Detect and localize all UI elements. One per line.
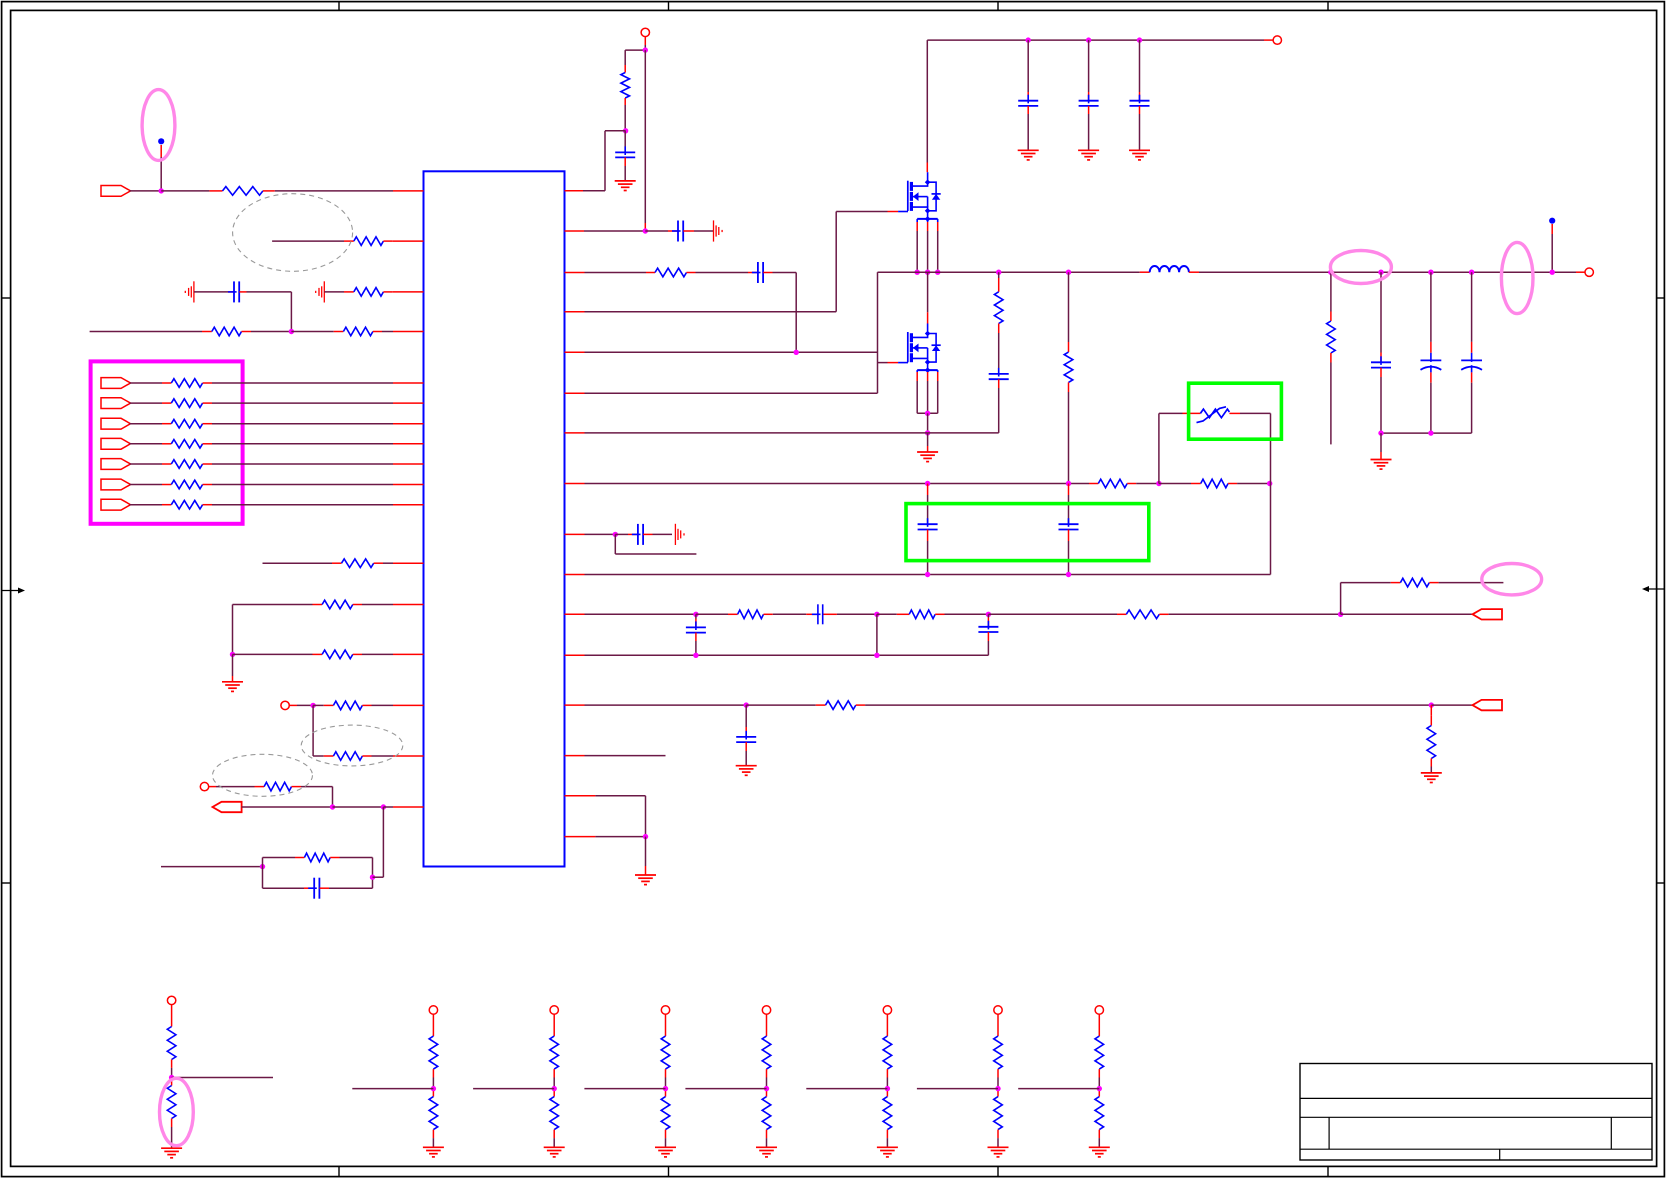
ground (bar) <box>714 220 723 241</box>
title block <box>1300 1064 1652 1161</box>
junction <box>925 430 930 435</box>
power dot <box>1549 218 1555 224</box>
highlight box <box>91 361 243 523</box>
wire <box>876 614 878 655</box>
wire <box>382 807 384 877</box>
junction <box>1378 270 1383 275</box>
wire <box>312 705 314 756</box>
highlight ellipse <box>142 90 175 161</box>
ground <box>736 766 757 776</box>
capacitor C7 <box>696 262 797 352</box>
wire <box>383 806 423 808</box>
resistor divider RD3 <box>550 1006 559 1148</box>
terminal <box>1273 36 1281 44</box>
wire <box>289 704 313 706</box>
resistor R9 <box>130 440 424 449</box>
resistor R23 <box>1064 272 1073 483</box>
wire <box>927 39 1273 41</box>
wire <box>1018 1088 1099 1090</box>
wire <box>1341 613 1473 615</box>
ground <box>161 1148 182 1158</box>
resistor R3 <box>324 288 423 297</box>
junction <box>1066 481 1071 486</box>
ground <box>877 1147 898 1157</box>
resistor R21 <box>565 268 696 277</box>
wire <box>565 755 666 757</box>
junction <box>260 864 265 869</box>
junction <box>1066 572 1071 577</box>
junction <box>1378 430 1383 435</box>
resistor R30 <box>746 701 1431 710</box>
wire <box>565 351 878 353</box>
resistor R28 <box>988 610 1340 619</box>
junction <box>1429 702 1434 707</box>
capacitor C11 <box>615 524 672 545</box>
left centering arrow <box>2 588 25 594</box>
junction <box>693 653 698 658</box>
row wire <box>565 432 999 434</box>
resistor R22 <box>994 272 1003 368</box>
wire (rail) <box>878 271 1585 273</box>
junction <box>159 188 164 193</box>
capacitor C17 <box>1421 272 1442 433</box>
capacitor C20 <box>615 131 635 181</box>
wire <box>233 605 313 655</box>
junction <box>1428 430 1433 435</box>
ground <box>655 1147 676 1157</box>
wire <box>927 413 929 433</box>
resistor R25 <box>1159 479 1270 488</box>
ground <box>635 837 656 885</box>
junction <box>169 1075 174 1080</box>
wire (Q1 source bundle) <box>917 212 938 273</box>
resistor R32 <box>1327 272 1336 444</box>
junction <box>381 804 386 809</box>
junction <box>663 1086 668 1091</box>
highlight ellipse (dashed) <box>233 194 353 272</box>
junction <box>925 411 930 416</box>
junction <box>370 875 375 880</box>
highlight ellipse <box>1330 251 1391 284</box>
junction <box>925 270 930 275</box>
terminal P1 <box>641 28 649 36</box>
junction <box>330 804 335 809</box>
wire <box>263 562 333 564</box>
terminal <box>1585 268 1593 276</box>
junction <box>885 1086 890 1091</box>
ground <box>423 1147 444 1157</box>
junction <box>1328 270 1333 275</box>
wire <box>130 145 162 191</box>
net flag <box>101 459 131 470</box>
resistor R24 <box>1089 479 1159 488</box>
net flag <box>1473 700 1503 710</box>
net flag <box>101 186 131 197</box>
ground <box>756 1147 777 1157</box>
inductor L1 <box>1140 266 1199 272</box>
junction <box>289 329 294 334</box>
junction <box>552 1086 557 1091</box>
resistor R4 <box>202 327 291 336</box>
ground <box>1129 150 1150 160</box>
wire <box>1431 704 1472 706</box>
wire (gate) <box>565 212 909 312</box>
resistor divider RD6 <box>883 1006 892 1148</box>
capacitor C14 <box>978 614 998 655</box>
wire <box>90 331 202 333</box>
junction <box>1066 270 1071 275</box>
wire <box>565 704 747 706</box>
wire <box>565 131 626 191</box>
junction <box>431 1086 436 1091</box>
highlight ellipse (dashed) <box>301 725 403 766</box>
ground <box>544 1147 565 1157</box>
wire <box>877 272 879 393</box>
wire <box>473 1088 554 1090</box>
resistor R12 <box>130 500 424 509</box>
highlight ellipse <box>160 1078 194 1145</box>
junction <box>1550 270 1555 275</box>
ground (bar) <box>185 281 194 302</box>
net flag <box>101 499 131 510</box>
resistor R15 <box>233 650 424 659</box>
capacitor C10 <box>1059 484 1079 575</box>
junction <box>1428 270 1433 275</box>
ground <box>1421 773 1442 783</box>
net flag <box>1473 609 1503 619</box>
wire (gate) <box>878 362 909 364</box>
wire <box>1551 224 1553 272</box>
junction <box>986 612 991 617</box>
ground <box>1371 433 1392 469</box>
junction <box>1097 1086 1102 1091</box>
resistor R1 <box>161 187 423 196</box>
capacitor C8 <box>989 368 1009 433</box>
junction <box>310 703 315 708</box>
wire <box>352 1088 433 1090</box>
varistor RV1 <box>1197 407 1271 423</box>
capacitor C15 <box>736 705 756 766</box>
capacitor C9 <box>918 484 938 575</box>
junction <box>1267 481 1272 486</box>
resistor R14 <box>313 600 424 609</box>
wire <box>625 37 645 51</box>
wire <box>372 858 374 889</box>
junction <box>925 572 930 577</box>
wire <box>565 613 696 615</box>
ground <box>917 433 938 462</box>
junction <box>744 702 749 707</box>
highlight box <box>906 504 1149 561</box>
right centering arrow <box>1642 586 1664 592</box>
resistor R5 <box>291 327 423 336</box>
junction <box>925 481 930 486</box>
wire <box>565 654 989 656</box>
capacitor C16 <box>1371 272 1391 433</box>
resistor R8 <box>130 419 424 428</box>
resistor R27 <box>877 610 989 619</box>
ground <box>1089 1147 1110 1157</box>
wire <box>272 240 344 242</box>
ground (bar) <box>316 281 325 302</box>
capacitor C12 <box>806 604 877 624</box>
net flag <box>101 479 131 490</box>
transistor Q2 <box>908 324 941 365</box>
capacitor C4 <box>1079 40 1099 150</box>
highlight ellipse (dashed) <box>213 754 313 796</box>
junction <box>1086 37 1091 42</box>
net flag <box>101 398 131 409</box>
terminal <box>200 782 208 790</box>
wire <box>1341 583 1391 615</box>
resistor R29 <box>1391 578 1504 587</box>
wire <box>242 806 333 808</box>
wire <box>615 534 696 554</box>
resistor divider RD1 <box>167 996 176 1148</box>
wire <box>565 392 878 394</box>
resistor divider RD7 <box>994 1006 1003 1148</box>
wire <box>565 836 646 838</box>
wire <box>565 230 646 232</box>
highlight ellipse <box>1482 564 1542 595</box>
highlight ellipse <box>1501 242 1533 313</box>
wire (rail2) <box>565 483 1090 485</box>
IC U1 <box>424 171 565 866</box>
capacitor C5 <box>1130 40 1150 150</box>
wire <box>584 1088 665 1090</box>
wire <box>1381 432 1472 434</box>
capacitor C1 <box>194 281 292 331</box>
resistor divider RD5 <box>762 1006 771 1148</box>
resistor R10 <box>130 460 424 469</box>
junction <box>1338 612 1343 617</box>
junction <box>874 653 879 658</box>
junction <box>623 128 628 133</box>
resistor R17 <box>313 752 423 761</box>
resistor R31 <box>1427 705 1436 773</box>
wire <box>1270 413 1272 574</box>
wire (drain) <box>927 272 929 323</box>
junction <box>1156 481 1161 486</box>
capacitor C3 <box>1018 40 1038 150</box>
wire <box>373 876 384 878</box>
resistor divider RD2 <box>429 1006 438 1148</box>
ground <box>988 1147 1009 1157</box>
junction <box>1137 37 1142 42</box>
resistor R18 <box>209 782 333 807</box>
junction <box>874 612 879 617</box>
junction <box>764 1086 769 1091</box>
junction <box>230 652 235 657</box>
junction <box>1026 37 1031 42</box>
resistor R16 <box>313 701 423 710</box>
net flag <box>101 418 131 429</box>
wire <box>565 533 616 535</box>
wire <box>1159 413 1201 483</box>
resistor R19 <box>263 853 373 888</box>
resistor R26 <box>696 610 806 619</box>
resistor divider RD4 <box>661 1006 670 1148</box>
wire <box>806 1088 887 1090</box>
terminal <box>281 701 289 709</box>
wire <box>644 50 646 231</box>
junction <box>915 270 920 275</box>
resistor R7 <box>130 399 424 408</box>
resistor R2 <box>344 237 424 246</box>
junction <box>1469 270 1474 275</box>
wire <box>333 806 384 808</box>
power dot <box>158 138 164 144</box>
junction <box>996 270 1001 275</box>
ground <box>222 654 243 691</box>
junction <box>794 350 799 355</box>
wire <box>565 796 646 837</box>
wire <box>917 1088 998 1090</box>
net flag <box>101 378 131 389</box>
capacitor C21 <box>645 221 713 242</box>
resistor R6 <box>130 379 424 388</box>
wire <box>926 40 928 172</box>
capacitor C13 <box>686 614 706 655</box>
net flag <box>213 802 242 812</box>
ground <box>1018 150 1039 160</box>
highlight box <box>1189 383 1282 439</box>
capacitor C18 <box>1461 272 1482 433</box>
wire (rail3) <box>565 574 1271 576</box>
resistor R11 <box>130 480 424 489</box>
wire <box>685 1088 766 1090</box>
junction <box>613 532 618 537</box>
wire <box>161 866 263 868</box>
junction <box>643 228 648 233</box>
capacitor C2 <box>263 878 373 899</box>
wire (Q2 source bundle) <box>917 362 938 413</box>
ground (bar) <box>675 524 684 545</box>
resistor R20 <box>621 50 630 131</box>
wire <box>172 1077 273 1079</box>
ground <box>1078 150 1099 160</box>
transistor Q1 <box>908 172 941 213</box>
junction <box>935 270 940 275</box>
resistor R13 <box>332 559 424 568</box>
junction <box>995 1086 1000 1091</box>
junction <box>643 834 648 839</box>
net flag <box>101 438 131 449</box>
junction <box>693 612 698 617</box>
ground <box>615 181 636 191</box>
junction <box>643 47 648 52</box>
resistor divider RD8 <box>1095 1006 1104 1148</box>
